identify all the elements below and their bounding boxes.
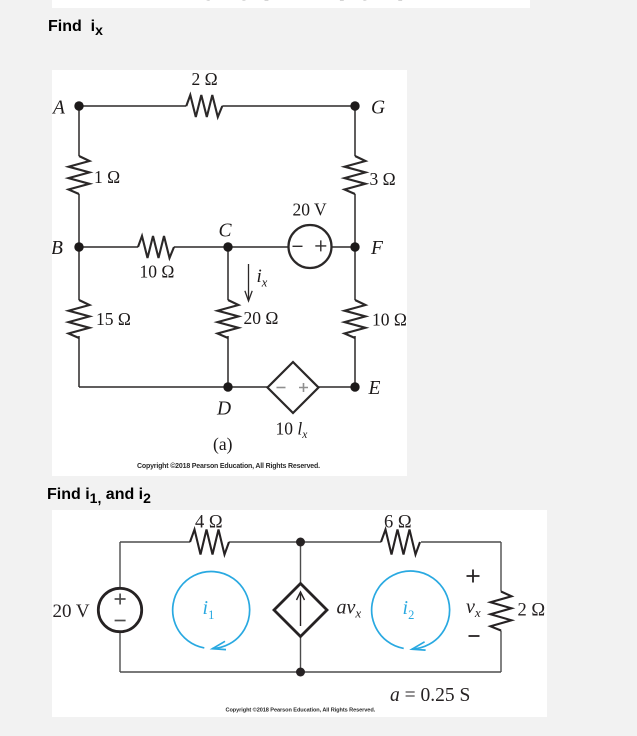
node C junction dot <box>223 242 232 251</box>
svg-text:10 Ω: 10 Ω <box>372 310 407 330</box>
wire R3 to F <box>354 194 356 247</box>
wire top rail: mid node to R6 to corner <box>421 541 501 543</box>
svg-text:(a): (a) <box>213 434 233 454</box>
top cut-off white strip with clipped equation text <box>52 0 530 8</box>
resistor R 4ohm <box>190 530 229 555</box>
wire dep source bottom stem <box>300 637 302 672</box>
wire top rail: R4 to mid node <box>229 541 381 543</box>
mesh current i1 loop arc <box>173 572 250 649</box>
wire C to V1 <box>228 246 289 248</box>
wire dep source to E <box>319 386 356 388</box>
resistor R 3ohm (G-F) <box>345 156 366 194</box>
bottom middle junction dot <box>296 668 305 677</box>
top middle junction dot <box>296 538 305 547</box>
svg-text:6 Ω: 6 Ω <box>384 513 412 533</box>
dep source diamond 10Ix <box>268 362 319 413</box>
wire B to R10 <box>79 246 138 248</box>
plus sign in vsource circle <box>115 594 126 605</box>
svg-text:a = 0.25 S: a = 0.25 S <box>390 685 470 706</box>
wire R10right to E <box>354 336 356 387</box>
vsource V1 20V circle <box>289 225 332 268</box>
wire top rail: source to R4 <box>120 541 190 543</box>
svg-text:C: C <box>219 221 233 242</box>
svg-text:Copyright ©2018 Pearson Educat: Copyright ©2018 Pearson Education, All R… <box>226 707 376 714</box>
svg-text:2 Ω: 2 Ω <box>192 70 218 89</box>
ix current arrow shaft <box>248 264 250 299</box>
mesh current i2 loop arc <box>372 571 450 649</box>
wire dep source top stem <box>300 542 302 583</box>
wire B to R15 <box>78 247 80 300</box>
wire R2 to G (top right) <box>222 105 355 107</box>
svg-text:B: B <box>52 238 63 259</box>
minus sign of vx polarity <box>469 635 480 637</box>
resistor R 20ohm (C-D) <box>218 300 239 338</box>
plus sign in diamond <box>299 383 308 392</box>
svg-text:i1: i1 <box>203 597 215 622</box>
node E junction dot <box>350 382 359 391</box>
svg-text:ix: ix <box>257 266 268 290</box>
resistor R 2ohm right <box>491 592 512 631</box>
dep source arrow shaft <box>300 594 302 626</box>
resistor R 6ohm <box>381 530 420 555</box>
panel (a) background <box>52 70 407 476</box>
mesh current i1 arrowhead <box>212 641 226 649</box>
svg-text:20 V: 20 V <box>53 601 90 622</box>
wire A to R2 (top left) <box>79 105 186 107</box>
svg-text:vx: vx <box>466 596 481 620</box>
svg-text:10 lx: 10 lx <box>276 419 309 442</box>
resistor R 10ohm (F-E) <box>345 300 366 338</box>
wire bottom rail <box>120 671 501 673</box>
wire V1 to F <box>332 246 356 248</box>
svg-text:20 V: 20 V <box>293 200 328 220</box>
svg-text:A: A <box>52 98 65 119</box>
wire F to R10right <box>354 247 356 300</box>
ix current arrowhead <box>245 291 252 301</box>
wire C to R20 <box>227 247 229 300</box>
wire G to R3 <box>354 106 356 156</box>
dep source diamond avx <box>274 584 327 637</box>
mesh current i2 arrowhead <box>412 642 426 650</box>
wire right vertical above R2 <box>500 542 502 592</box>
svg-text:2 Ω: 2 Ω <box>518 601 546 621</box>
panel (b) background <box>52 510 547 717</box>
svg-text:Copyright ©2018 Pearson Educat: Copyright ©2018 Pearson Education, All R… <box>137 462 320 470</box>
svg-text:1 Ω: 1 Ω <box>94 167 120 187</box>
resistor R 1ohm (A-B) <box>69 156 90 194</box>
wire R1 to B <box>78 194 80 247</box>
plus sign in V1 circle <box>315 240 326 251</box>
svg-text:E: E <box>368 378 381 399</box>
minus sign in V1 circle <box>293 245 303 247</box>
wire R10 to C <box>174 246 228 248</box>
dep source arrowhead <box>297 592 305 600</box>
wire A to R1 <box>78 106 80 156</box>
svg-text:20 Ω: 20 Ω <box>244 308 279 328</box>
resistor R 10ohm (B-C) <box>138 236 174 258</box>
node A junction dot <box>74 101 83 110</box>
svg-text:i2: i2 <box>403 597 415 622</box>
heading: Find i1, and i2 <box>47 486 151 506</box>
wire R20 to D <box>227 336 229 387</box>
node G junction dot <box>350 101 359 110</box>
svg-text:G: G <box>371 98 385 119</box>
node F junction dot <box>350 242 359 251</box>
wire left vertical below source <box>119 632 121 672</box>
resistor R 15ohm (B-bottom) <box>69 300 90 338</box>
resistor R 2ohm (A-G) <box>186 95 222 117</box>
heading: Find ix <box>48 18 103 38</box>
svg-text:15 Ω: 15 Ω <box>96 309 131 329</box>
minus sign in diamond <box>277 387 286 389</box>
svg-text:10 Ω: 10 Ω <box>140 262 175 282</box>
wire R15 to bottom-left corner <box>78 336 80 387</box>
svg-text:3 Ω: 3 Ω <box>370 169 396 189</box>
svg-text:4 Ω: 4 Ω <box>195 513 223 533</box>
minus sign in vsource circle <box>115 620 126 622</box>
vsource 20V circle <box>98 588 141 631</box>
wire left vertical above source <box>119 542 121 588</box>
node B junction dot <box>74 242 83 251</box>
svg-text:F: F <box>370 238 384 259</box>
wire right vertical below R2 <box>500 631 502 673</box>
plus sign of vx polarity <box>467 570 480 583</box>
svg-text:D: D <box>216 399 231 420</box>
node D junction dot <box>223 382 232 391</box>
svg-text:avx: avx <box>337 597 362 621</box>
wire bottom rail left (corner to dep source) <box>79 386 268 388</box>
